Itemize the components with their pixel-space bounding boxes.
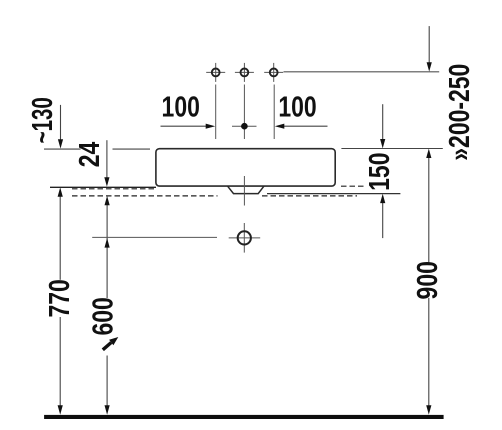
svg-text:770: 770: [45, 279, 76, 317]
svg-text:150: 150: [365, 153, 396, 191]
svg-text:»200-250: »200-250: [445, 64, 476, 161]
svg-text:100: 100: [162, 92, 200, 123]
svg-text:900: 900: [413, 261, 444, 299]
svg-text:600: 600: [88, 297, 119, 335]
svg-text:100: 100: [278, 92, 316, 123]
svg-text:24: 24: [75, 141, 106, 167]
svg-text:~130: ~130: [28, 97, 59, 143]
